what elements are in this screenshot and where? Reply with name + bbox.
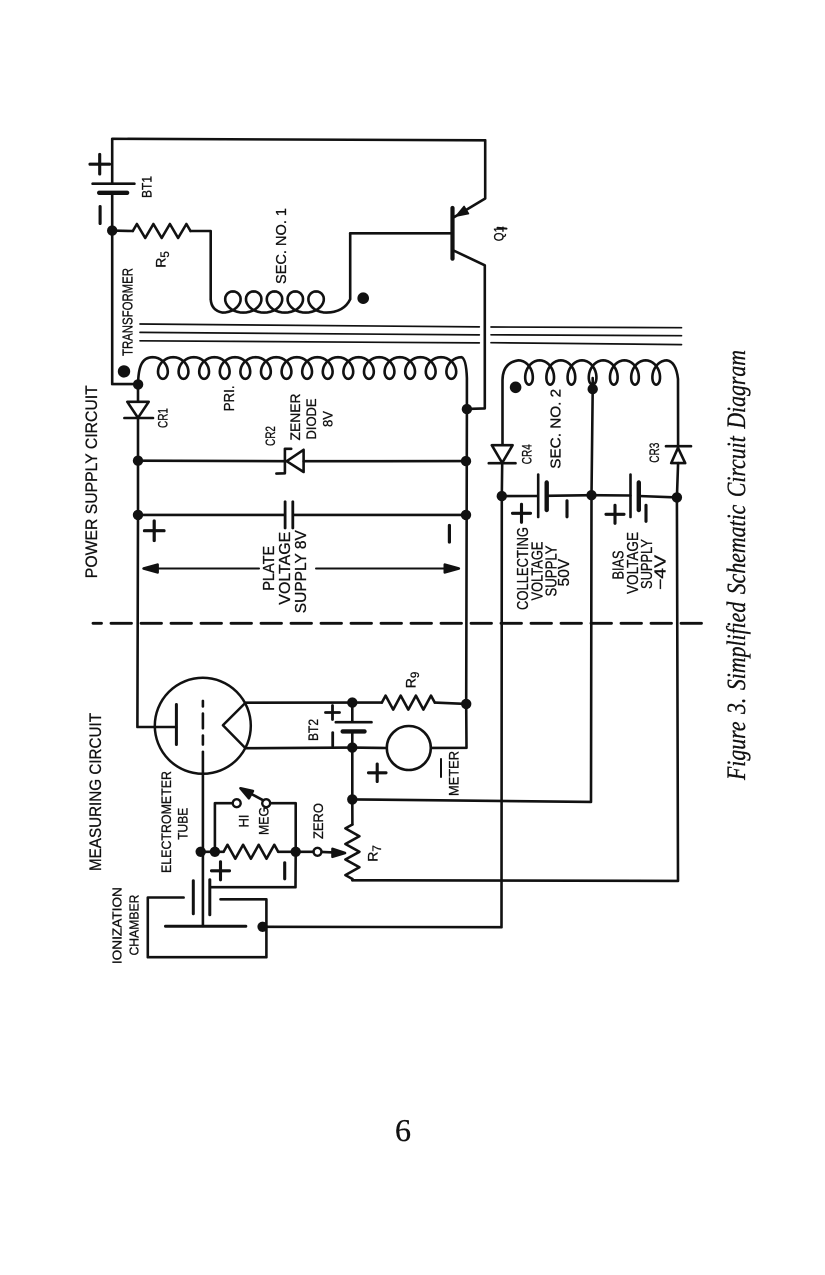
arrow span plate voltage supply (144, 565, 459, 573)
label POWER SUPPLY CIRCUIT (82, 385, 101, 578)
dashed separator line (93, 622, 710, 625)
plus sign HI MEG left (212, 862, 230, 880)
plus sign collecting supply (513, 504, 531, 522)
svg-text:BT1: BT1 (139, 176, 155, 198)
wire rail down to meter (431, 704, 467, 748)
inductor SEC1 winding (211, 233, 351, 312)
wire right rail (465, 409, 468, 704)
resistor R9 (352, 696, 466, 710)
node junction HI MEG right (291, 847, 301, 857)
label CR2 (262, 426, 278, 446)
battery bias voltage supply (592, 475, 677, 518)
label PLATE VOLTAGE SUPPLY 8V (261, 530, 310, 614)
wire cathode top to BT2 plus (246, 701, 353, 704)
label MEASURING CIRCUIT (86, 713, 105, 871)
svg-text:50V: 50V (556, 558, 573, 586)
transistor Q1 (453, 140, 486, 409)
svg-text:PLATE: PLATE (261, 546, 278, 591)
svg-text:Q1: Q1 (491, 226, 507, 241)
label PRI. (222, 385, 238, 411)
node junction left rail / cap row (133, 510, 143, 520)
wire cathode bottom to BT2 minus (246, 746, 353, 749)
node junction supply row center (586, 490, 596, 500)
svg-text:ZENER: ZENER (288, 393, 303, 440)
node junction BT2 minus (347, 742, 357, 752)
switch HI MEG shorting (215, 788, 296, 852)
label TRANSFORMER (120, 268, 136, 356)
label BT2 (305, 719, 321, 741)
label ELECTROMETER TUBE (159, 771, 191, 873)
minus sign HI MEG right (283, 863, 286, 879)
battery BT2 (336, 703, 372, 748)
label Q1 overbar tick (498, 227, 507, 230)
node junction SEC2 center tap (588, 384, 598, 394)
svg-text:PRI.: PRI. (222, 385, 238, 411)
electrometer grid lead (202, 752, 205, 927)
minus sign BT2 (331, 733, 334, 746)
ionization chamber inner electrode (166, 925, 246, 928)
transformer phasing dot PRI (118, 365, 130, 377)
node junction switch loop left (210, 847, 220, 857)
battery BT1 (90, 154, 134, 223)
capacitor filter (138, 502, 466, 528)
label SEC. NO. 1 (273, 208, 290, 284)
svg-text:CHAMBER: CHAMBER (127, 895, 141, 956)
svg-text:6: 6 (395, 1112, 411, 1148)
wire top from BT1 plus to Q1 emitter (112, 139, 485, 184)
wire SEC1 to Q1 base (350, 232, 452, 235)
wire SEC2 center tap down (592, 378, 593, 495)
electrometer cathode (223, 703, 246, 749)
label ZERO (310, 803, 326, 839)
svg-text:BT2: BT2 (305, 719, 321, 741)
plus sign BT2 (326, 706, 340, 720)
plus sign bias supply (606, 505, 624, 523)
label BT1 (139, 176, 155, 198)
node junction CR4 / collecting supply (497, 491, 507, 501)
wire R5 to SEC1 left end (191, 231, 211, 299)
node junction left rail / CR2 row (133, 456, 143, 466)
inductor PRI winding (138, 357, 467, 409)
node junction grid / HI MEG row (196, 847, 206, 857)
node junction right rail / CR2 row (461, 456, 471, 466)
label BIAS VOLTAGE SUPPLY -4V (611, 532, 670, 594)
label R5 (153, 251, 173, 268)
diode CR1 (124, 384, 153, 460)
label METER (441, 751, 462, 796)
svg-text:HI: HI (236, 815, 252, 828)
node junction PRI left / CR1 anode (133, 379, 143, 389)
plus sign meter (369, 764, 387, 782)
svg-text:METER: METER (446, 751, 462, 796)
label COLLECTING VOLTAGE SUPPLY 50V (515, 527, 573, 610)
wire HI MEG right down to chamber electrode (210, 852, 296, 887)
electrometer tube envelope (155, 678, 251, 774)
wire left rail down to electrometer plate (137, 461, 176, 727)
resistor HI MEG (201, 845, 296, 859)
zero adjust terminal and wiper arrow (300, 848, 346, 857)
label R9 (403, 672, 423, 689)
node junction BT1/R5 (107, 225, 117, 235)
svg-text:SEC. NO. 2: SEC. NO. 2 (548, 389, 565, 469)
wire bias line to cathode circuit (352, 495, 591, 802)
inductor SEC2 winding (503, 360, 679, 446)
svg-text:MEASURING CIRCUIT: MEASURING CIRCUIT (86, 713, 105, 871)
svg-text:TRANSFORMER: TRANSFORMER (120, 268, 136, 356)
svg-text:POWER SUPPLY CIRCUIT: POWER SUPPLY CIRCUIT (82, 385, 101, 578)
ionization chamber shell (148, 898, 267, 958)
potentiometer R7 (345, 799, 359, 880)
node junction BT2 plus (347, 697, 357, 707)
svg-text:SEC. NO. 1: SEC. NO. 1 (273, 208, 290, 284)
label Q1 (491, 226, 507, 241)
svg-text:IONIZATION: IONIZATION (111, 887, 125, 964)
svg-text:MEG: MEG (256, 807, 272, 835)
meter M1 (352, 726, 431, 770)
svg-text:CR1: CR1 (155, 408, 171, 428)
label ZENER DIODE 8V (288, 393, 336, 440)
node junction chamber shell / collecting wire (257, 922, 267, 932)
transformer phasing dot SEC2 (510, 382, 522, 394)
svg-text:CR2: CR2 (262, 426, 278, 446)
minus sign bias supply (644, 505, 647, 521)
minus sign collecting supply (565, 501, 568, 517)
transformer phasing dot SEC1 (357, 292, 369, 304)
svg-text:DIODE: DIODE (304, 399, 319, 440)
minus sign plate supply right (448, 526, 451, 543)
wire BT2 minus down to R7 (351, 748, 354, 800)
svg-text:−4V: −4V (653, 554, 670, 590)
svg-text:CR4: CR4 (519, 444, 535, 464)
svg-text:TUBE: TUBE (176, 808, 191, 840)
wire BT1 minus rail down to transformer jog (112, 193, 138, 384)
plus sign plate supply left (145, 521, 165, 541)
transformer core lines (140, 324, 682, 345)
electrometer grid dashed (202, 701, 205, 745)
svg-text:8V: 8V (321, 411, 336, 427)
node junction right rail / PRI right / Q1 collector (462, 404, 472, 414)
node junction R9 right / rail (461, 699, 471, 709)
node junction right rail / cap row (461, 510, 471, 520)
node junction R7 top (347, 794, 357, 804)
label IONIZATION CHAMBER (111, 887, 142, 964)
svg-text:Figure 3. Simplified Schemat: Figure 3. Simplified Schematic Circuit D… (722, 350, 751, 781)
svg-text:CR3: CR3 (646, 443, 662, 463)
svg-text:ZERO: ZERO (310, 803, 326, 839)
svg-text:ELECTROMETER: ELECTROMETER (159, 771, 174, 873)
diode CR3 (666, 446, 691, 497)
wire collecting supply to ionization chamber (266, 496, 502, 927)
svg-text:SUPPLY 8V: SUPPLY 8V (293, 530, 310, 614)
svg-text:VOLTAGE: VOLTAGE (277, 532, 294, 605)
zener diode CR2 (138, 449, 466, 474)
battery collecting voltage supply (502, 475, 592, 518)
diode CR4 (489, 445, 516, 496)
electrometer plate (175, 705, 178, 745)
label R7 (365, 845, 385, 862)
label HI MEG (236, 807, 272, 835)
label CR3 (646, 443, 662, 463)
node junction CR3 / bias supply (672, 492, 682, 502)
label CR1 (155, 408, 171, 428)
figure caption (722, 350, 751, 781)
wire bias return to R7 bottom (352, 497, 678, 881)
label CR4 (519, 444, 535, 464)
page number (395, 1112, 411, 1148)
resistor R5 (112, 224, 190, 238)
ionization chamber electrode bars (193, 880, 210, 915)
label SEC. NO. 2 (548, 389, 565, 469)
